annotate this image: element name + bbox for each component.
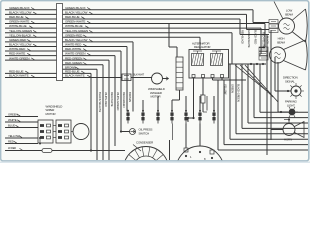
alternator regulator U1 <box>189 50 229 79</box>
high beam headlamp <box>270 40 308 70</box>
svg-text:BLACK-WHITE: BLACK-WHITE <box>9 74 29 78</box>
wire regulator terminal drops <box>194 78 223 119</box>
washer motor label <box>148 87 165 99</box>
svg-text:BEAM: BEAM <box>277 41 285 45</box>
wire right BROWN drop x97 <box>63 65 98 160</box>
horn <box>283 118 304 137</box>
wire left row 6 YELLOW-GREEN <box>5 29 57 33</box>
vertical wire label BROWN <box>128 92 132 102</box>
wire branch row4 drop <box>169 24 177 57</box>
wire regulator bottom bus <box>213 79 247 81</box>
wire right row 4 GREEN-WHITE <box>63 20 266 48</box>
paper background <box>0 0 310 163</box>
svg-text:BLACK-YELLOW: BLACK-YELLOW <box>9 43 32 47</box>
multi-pin connector ladder <box>176 57 183 90</box>
svg-text:WHITE: WHITE <box>8 118 17 122</box>
wire left row 2 BLACK-YELLOW <box>5 10 57 14</box>
svg-text:GREEN-BLACK: GREEN-BLACK <box>65 6 87 10</box>
wire left lower BLACK-WHITE <box>5 74 57 78</box>
wire right row 6 YELLOW-GREEN <box>63 29 233 64</box>
wire right row 8 BLACK-YELLOW <box>63 38 134 112</box>
wire right row 7 GREEN-RED <box>63 33 201 49</box>
svg-text:BLACK-YELLOW: BLACK-YELLOW <box>9 10 32 14</box>
vertical wire label RED-WHITE <box>110 92 114 107</box>
svg-text:CONDENSER: CONDENSER <box>136 141 153 145</box>
svg-text:GREEN-BLACK: GREEN-BLACK <box>9 6 31 10</box>
fuse link F1 <box>200 95 205 103</box>
svg-text:RED-BLUE: RED-BLUE <box>9 15 24 19</box>
right vertical feeds <box>267 30 283 155</box>
svg-text:BLACK-YELLOW: BLACK-YELLOW <box>65 38 88 42</box>
distributor <box>176 124 224 195</box>
wiper feed wires <box>5 113 38 144</box>
wire ladder drop <box>172 90 180 112</box>
wire left row 8 GREEN-RED <box>5 38 57 42</box>
wiper motor label <box>46 104 63 116</box>
wire fused feed bottom <box>5 146 125 153</box>
wire right row 5 WHITE-BLUE <box>63 24 262 54</box>
wire left row 7 YELLOW-BLACK <box>5 33 57 37</box>
svg-text:RED-WHITE: RED-WHITE <box>65 47 81 51</box>
wire right RED-BLUE drop x91 <box>63 70 92 151</box>
svg-text:MOTOR: MOTOR <box>46 112 56 116</box>
svg-text:RED-BLACK: RED-BLACK <box>241 30 245 44</box>
svg-text:YELLOW-GREEN: YELLOW-GREEN <box>65 29 88 33</box>
svg-text:BLACK-RED: BLACK-RED <box>254 30 258 44</box>
svg-text:YELLOW-BLACK: YELLOW-BLACK <box>9 33 32 37</box>
wire right row 9 WHITE-RED <box>63 43 128 112</box>
svg-text:SIGNAL: SIGNAL <box>285 80 295 84</box>
wire right row 12 RED-GREEN <box>63 56 110 158</box>
svg-text:YELLOW: YELLOW <box>8 134 20 138</box>
svg-text:BLACK-WHITE: BLACK-WHITE <box>65 74 85 78</box>
diagonal wires <box>235 65 278 102</box>
wire diagonal to low beam <box>274 2 283 20</box>
svg-text:WHITE-BLUE: WHITE-BLUE <box>65 24 83 28</box>
svg-text:GREEN: GREEN <box>8 113 18 117</box>
low beam label <box>285 9 293 17</box>
svg-text:RED-GREEN: RED-GREEN <box>65 61 82 65</box>
wiper connector blocks <box>38 120 71 143</box>
washer plug connector <box>122 74 131 81</box>
svg-text:RED-GREEN: RED-GREEN <box>65 56 82 60</box>
svg-text:BEAM: BEAM <box>285 13 293 17</box>
svg-text:GREEN-WHITE: GREEN-WHITE <box>247 30 251 48</box>
high beam connector cells <box>259 47 268 60</box>
condenser label <box>133 141 153 152</box>
svg-text:RED-BLUE: RED-BLUE <box>65 15 80 19</box>
svg-text:WHITE-RED: WHITE-RED <box>104 92 108 107</box>
condenser / cap C1 <box>124 147 169 192</box>
direction signal lamp <box>275 83 304 99</box>
windshield washer motor M2 <box>152 73 169 84</box>
alternator regulator label <box>192 41 210 49</box>
wire left row 9 BLACK-YELLOW <box>5 43 57 47</box>
svg-text:GREEN: GREEN <box>231 84 235 93</box>
parking light lamp <box>278 107 298 117</box>
vertical wire label WHITE-RED <box>104 92 108 107</box>
svg-text:SWITCH: SWITCH <box>139 132 150 136</box>
svg-text:BLUE: BLUE <box>8 124 15 128</box>
svg-text:WHITE-GREEN: WHITE-GREEN <box>9 56 29 60</box>
wire right row 3 RED-BLUE <box>63 15 270 34</box>
wire left row 12 WHITE-GREEN <box>5 56 57 60</box>
windshield wiper motor M1 <box>73 124 89 140</box>
inline plug connectors row <box>126 110 215 124</box>
svg-text:BLACK-YELLOW: BLACK-YELLOW <box>65 10 88 14</box>
svg-text:RED-GREEN: RED-GREEN <box>122 92 126 108</box>
wire left row 1 GREEN-BLACK <box>5 6 57 10</box>
low beam connector cells <box>269 20 278 33</box>
wire BLACK-WHITE to washer motor <box>63 74 123 78</box>
vertical wire label WHITE-GREEN <box>116 92 120 110</box>
svg-text:W-RED: W-RED <box>8 146 16 150</box>
wire right row 1 GREEN-BLACK <box>63 6 270 23</box>
svg-text:GREEN-WHITE: GREEN-WHITE <box>9 20 29 24</box>
nested corner wires bottom right <box>218 64 308 150</box>
svg-text:RED-WHITE: RED-WHITE <box>9 52 25 56</box>
wire left row 10 WHITE-RED <box>5 47 57 51</box>
low beam headlamp <box>279 9 308 42</box>
wire left row 4 GREEN-WHITE <box>5 20 57 24</box>
svg-text:BLK-WHT: BLK-WHT <box>133 73 145 77</box>
svg-text:MOTOR: MOTOR <box>151 95 161 99</box>
horn label <box>284 138 292 142</box>
svg-text:WHITE-GREEN: WHITE-GREEN <box>65 52 85 56</box>
svg-text:GREEN-RED: GREEN-RED <box>9 38 27 42</box>
svg-text:RED: RED <box>8 140 14 144</box>
svg-text:RED-WHITE: RED-WHITE <box>110 92 114 107</box>
wires above plugs <box>143 96 214 112</box>
vertical wire label BLACK-YELLOW <box>98 92 102 112</box>
junction dots under regulator <box>187 117 195 122</box>
wire left lower RED-BLUE <box>5 70 57 74</box>
svg-text:BLACK-YELLOW: BLACK-YELLOW <box>98 92 102 112</box>
svg-text:RED-YELLOW: RED-YELLOW <box>262 32 266 49</box>
oil pressure switch label <box>139 128 153 136</box>
vertical labels right <box>224 30 270 102</box>
parking light label <box>285 100 298 108</box>
bus y64 <box>228 63 266 65</box>
direction signal label <box>283 76 298 84</box>
svg-text:WHITE-BLUE: WHITE-BLUE <box>9 24 27 28</box>
wire left row 3 RED-BLUE <box>5 15 57 19</box>
wire right row 10 RED-WHITE <box>63 47 122 131</box>
vertical wire label RED-GREEN <box>122 92 126 108</box>
svg-text:YELLOW-GREEN: YELLOW-GREEN <box>9 29 32 33</box>
svg-text:BROWN: BROWN <box>128 92 132 102</box>
svg-text:GREEN-WHITE: GREEN-WHITE <box>65 20 85 24</box>
oil pressure switch S1 <box>120 112 136 135</box>
svg-text:BLACK: BLACK <box>266 36 270 44</box>
wire left row 5 WHITE-BLUE <box>5 24 57 28</box>
scan frame border <box>1 1 309 161</box>
svg-text:BLACK-GREEN: BLACK-GREEN <box>237 84 241 102</box>
svg-text:WHITE-RED: WHITE-RED <box>65 43 82 47</box>
wire right row 2 BLACK-YELLOW <box>63 10 270 29</box>
bulkhead connector strip <box>57 4 63 81</box>
junction dots wiper <box>39 137 41 145</box>
wire left row 11 RED-WHITE <box>5 52 57 56</box>
svg-text:GREEN-RED: GREEN-RED <box>65 33 83 37</box>
svg-text:WHITE-GREEN: WHITE-GREEN <box>116 92 120 110</box>
wiper wires mid <box>53 126 73 138</box>
wire right RED-GREEN drop x103 <box>63 61 104 160</box>
svg-text:REGULATOR: REGULATOR <box>194 45 210 49</box>
high beam label <box>277 37 285 45</box>
wire washer BLK-WHT <box>131 73 152 78</box>
svg-text:LIGHT: LIGHT <box>287 104 295 108</box>
wire right row 11 WHITE-GREEN <box>63 52 116 140</box>
wires to bottom edge <box>109 124 173 161</box>
svg-text:WHITE-RED: WHITE-RED <box>9 47 26 51</box>
